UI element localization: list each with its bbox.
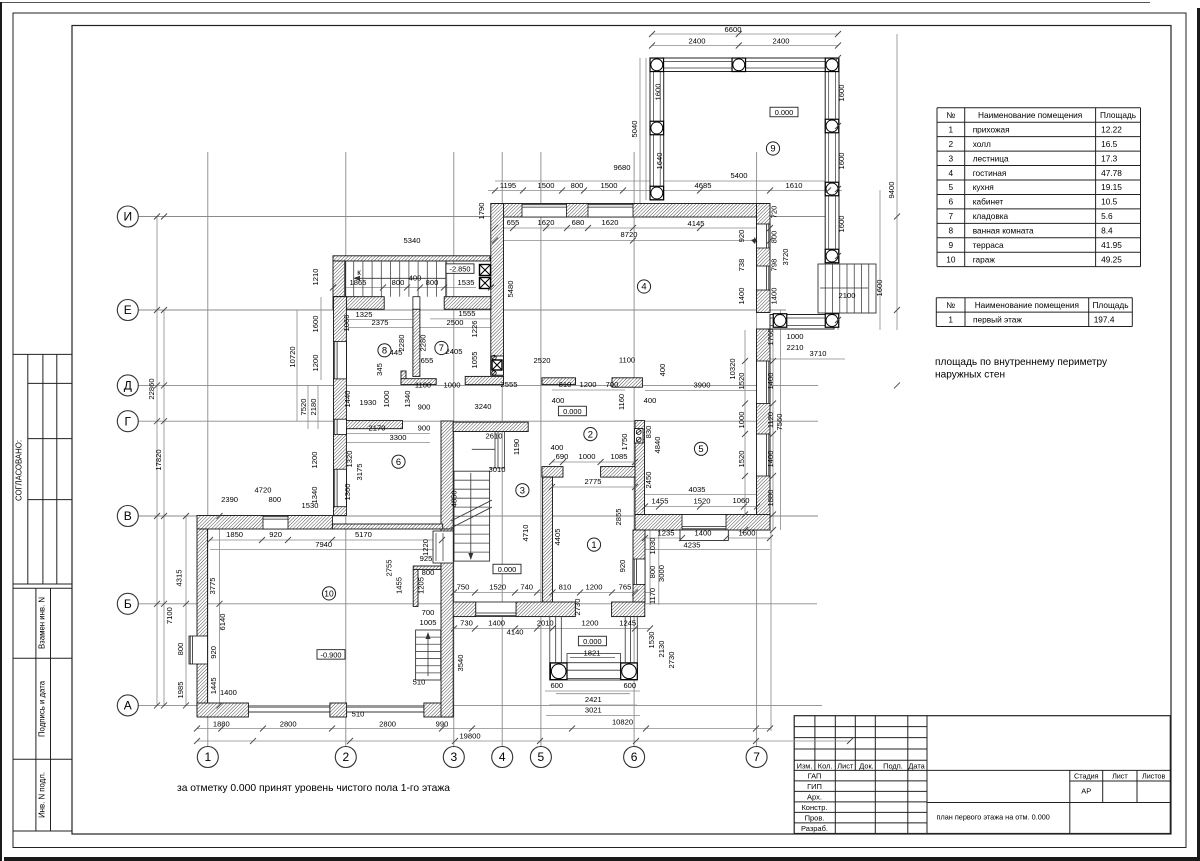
svg-text:6: 6 bbox=[631, 750, 638, 764]
svg-text:Б: Б bbox=[124, 597, 132, 611]
svg-text:400: 400 bbox=[644, 396, 657, 405]
svg-text:1200: 1200 bbox=[580, 380, 597, 389]
svg-text:900: 900 bbox=[418, 403, 431, 412]
svg-text:площадь по внутреннему перимет: площадь по внутреннему периметру bbox=[935, 357, 1108, 368]
svg-text:680: 680 bbox=[572, 218, 585, 227]
svg-text:1400: 1400 bbox=[488, 619, 505, 628]
svg-text:Е: Е bbox=[124, 303, 132, 317]
svg-text:4685: 4685 bbox=[695, 181, 712, 190]
svg-text:1235: 1235 bbox=[658, 529, 675, 538]
svg-text:1160: 1160 bbox=[617, 394, 626, 410]
svg-text:1555: 1555 bbox=[459, 309, 476, 318]
svg-text:1325: 1325 bbox=[356, 310, 373, 319]
svg-text:7: 7 bbox=[439, 342, 444, 353]
svg-text:1360: 1360 bbox=[343, 484, 352, 501]
svg-text:Разраб.: Разраб. bbox=[801, 824, 828, 833]
svg-text:4: 4 bbox=[949, 168, 954, 178]
svg-text:прихожая: прихожая bbox=[973, 124, 1010, 134]
svg-text:4720: 4720 bbox=[255, 486, 272, 495]
svg-text:Площадь: Площадь bbox=[1092, 300, 1128, 310]
svg-text:830: 830 bbox=[644, 426, 653, 439]
svg-text:1821: 1821 bbox=[584, 649, 601, 658]
svg-text:1500: 1500 bbox=[601, 181, 618, 190]
svg-text:10: 10 bbox=[946, 254, 956, 264]
svg-text:2210: 2210 bbox=[787, 343, 804, 352]
svg-text:4035: 4035 bbox=[689, 485, 706, 494]
svg-text:1400: 1400 bbox=[766, 373, 775, 390]
svg-text:7: 7 bbox=[949, 211, 954, 221]
svg-text:1100: 1100 bbox=[619, 356, 635, 365]
svg-text:1000: 1000 bbox=[444, 381, 461, 390]
svg-text:7520: 7520 bbox=[299, 399, 308, 416]
svg-text:2421: 2421 bbox=[585, 695, 602, 704]
svg-text:47.78: 47.78 bbox=[1101, 168, 1122, 178]
svg-text:2755: 2755 bbox=[385, 560, 394, 577]
svg-text:2520: 2520 bbox=[534, 356, 551, 365]
svg-text:700: 700 bbox=[422, 608, 435, 617]
svg-text:6140: 6140 bbox=[218, 614, 227, 631]
svg-text:4405: 4405 bbox=[553, 529, 562, 546]
svg-text:800: 800 bbox=[268, 495, 281, 504]
svg-text:1200: 1200 bbox=[582, 619, 599, 628]
svg-text:3: 3 bbox=[949, 153, 954, 163]
svg-text:2855: 2855 bbox=[614, 509, 623, 526]
svg-text:1340: 1340 bbox=[310, 487, 319, 504]
svg-text:Изм.: Изм. bbox=[797, 761, 813, 770]
svg-text:810: 810 bbox=[559, 380, 572, 389]
svg-text:Лист: Лист bbox=[837, 761, 854, 770]
svg-text:4: 4 bbox=[499, 750, 506, 764]
svg-text:3021: 3021 bbox=[585, 706, 602, 715]
svg-text:1005: 1005 bbox=[420, 618, 437, 627]
svg-text:10.5: 10.5 bbox=[1101, 197, 1118, 207]
svg-text:1000: 1000 bbox=[382, 391, 391, 408]
svg-text:1190: 1190 bbox=[512, 439, 521, 455]
svg-text:2: 2 bbox=[588, 428, 593, 439]
svg-text:1620: 1620 bbox=[538, 218, 555, 227]
svg-text:Лист: Лист bbox=[1112, 771, 1128, 780]
svg-text:600: 600 bbox=[623, 681, 636, 690]
svg-text:2610: 2610 bbox=[486, 432, 503, 441]
svg-text:5400: 5400 bbox=[731, 171, 748, 180]
svg-text:1000: 1000 bbox=[787, 332, 804, 341]
svg-text:1600: 1600 bbox=[311, 316, 320, 333]
svg-text:терраса: терраса bbox=[973, 240, 1004, 250]
svg-text:4315: 4315 bbox=[175, 570, 184, 587]
svg-text:Д: Д bbox=[124, 379, 132, 393]
svg-text:1195: 1195 bbox=[500, 181, 516, 190]
svg-text:1000: 1000 bbox=[579, 452, 596, 461]
svg-text:1760: 1760 bbox=[766, 329, 775, 346]
svg-text:Наименование помещения: Наименование помещения bbox=[975, 300, 1079, 310]
svg-text:Инв. N подл.: Инв. N подл. bbox=[38, 772, 47, 818]
svg-text:510: 510 bbox=[352, 710, 365, 719]
svg-text:3300: 3300 bbox=[390, 433, 407, 442]
svg-text:кладовка: кладовка bbox=[973, 211, 1009, 221]
svg-text:0.000: 0.000 bbox=[563, 407, 582, 416]
svg-text:920: 920 bbox=[618, 560, 627, 573]
svg-text:655: 655 bbox=[421, 356, 434, 365]
svg-text:1170: 1170 bbox=[648, 588, 657, 604]
svg-text:1200: 1200 bbox=[310, 452, 319, 469]
svg-text:8: 8 bbox=[949, 226, 954, 236]
svg-text:1400: 1400 bbox=[220, 688, 237, 697]
svg-text:Подп.: Подп. bbox=[883, 761, 903, 770]
svg-text:1520: 1520 bbox=[489, 583, 506, 592]
svg-text:1445: 1445 bbox=[209, 677, 218, 694]
svg-text:2730: 2730 bbox=[573, 599, 582, 616]
svg-text:3: 3 bbox=[450, 750, 457, 764]
svg-text:холл: холл bbox=[973, 139, 991, 149]
svg-text:Подпись и дата: Подпись и дата bbox=[38, 680, 47, 737]
svg-text:720: 720 bbox=[770, 206, 779, 219]
svg-text:1055: 1055 bbox=[470, 352, 479, 369]
svg-text:1: 1 bbox=[949, 124, 954, 134]
svg-text:1500: 1500 bbox=[538, 181, 555, 190]
svg-text:3010: 3010 bbox=[489, 465, 506, 474]
svg-text:1400: 1400 bbox=[737, 288, 746, 305]
svg-text:10320: 10320 bbox=[728, 358, 737, 379]
svg-text:2500: 2500 bbox=[447, 318, 464, 327]
svg-text:1600: 1600 bbox=[739, 529, 756, 538]
svg-text:740: 740 bbox=[520, 583, 533, 592]
svg-text:1600: 1600 bbox=[654, 84, 663, 101]
svg-text:1120: 1120 bbox=[766, 412, 775, 428]
svg-text:3775: 3775 bbox=[208, 578, 217, 595]
svg-text:Пров.: Пров. bbox=[805, 813, 825, 822]
svg-text:3540: 3540 bbox=[456, 655, 465, 672]
svg-text:№: № bbox=[946, 300, 955, 310]
svg-text:4850: 4850 bbox=[450, 490, 459, 507]
svg-text:2375: 2375 bbox=[372, 318, 389, 327]
svg-text:1520: 1520 bbox=[737, 451, 746, 468]
svg-text:1865: 1865 bbox=[350, 278, 367, 287]
svg-text:7560: 7560 bbox=[775, 414, 784, 431]
svg-text:5: 5 bbox=[949, 182, 954, 192]
svg-text:гараж: гараж bbox=[973, 254, 996, 264]
svg-text:лестница: лестница bbox=[973, 153, 1009, 163]
svg-text:400: 400 bbox=[658, 364, 667, 377]
svg-text:2280: 2280 bbox=[397, 335, 406, 352]
svg-text:800: 800 bbox=[770, 231, 779, 244]
svg-text:кабинет: кабинет bbox=[973, 197, 1004, 207]
svg-text:Арх.: Арх. bbox=[807, 792, 822, 801]
svg-text:5: 5 bbox=[698, 443, 703, 454]
svg-text:2800: 2800 bbox=[379, 720, 396, 729]
svg-text:690: 690 bbox=[556, 452, 569, 461]
svg-text:900: 900 bbox=[418, 424, 431, 433]
svg-text:2555: 2555 bbox=[501, 380, 518, 389]
svg-text:3710: 3710 bbox=[810, 349, 827, 358]
svg-text:810: 810 bbox=[559, 583, 572, 592]
svg-text:400: 400 bbox=[551, 443, 564, 452]
svg-text:5480: 5480 bbox=[506, 281, 515, 298]
svg-text:ГАП: ГАП bbox=[808, 771, 822, 780]
svg-text:1400: 1400 bbox=[766, 451, 775, 468]
svg-text:2450: 2450 bbox=[644, 472, 653, 489]
svg-text:1200: 1200 bbox=[586, 583, 603, 592]
svg-text:41.95: 41.95 bbox=[1101, 240, 1122, 250]
svg-text:Кол.: Кол. bbox=[818, 761, 833, 770]
svg-text:Г: Г bbox=[125, 414, 132, 428]
svg-text:1220: 1220 bbox=[421, 539, 430, 556]
svg-text:2400: 2400 bbox=[689, 37, 706, 46]
svg-text:4235: 4235 bbox=[684, 541, 701, 550]
svg-text:ванная комната: ванная комната bbox=[973, 226, 1034, 236]
svg-text:1880: 1880 bbox=[766, 490, 775, 507]
svg-text:700: 700 bbox=[606, 380, 619, 389]
svg-text:9680: 9680 bbox=[614, 163, 631, 172]
svg-text:1226: 1226 bbox=[470, 321, 479, 338]
svg-text:Констр.: Констр. bbox=[801, 803, 827, 812]
svg-text:2390: 2390 bbox=[221, 495, 238, 504]
svg-text:12.22: 12.22 bbox=[1101, 124, 1122, 134]
svg-text:1200: 1200 bbox=[311, 355, 320, 372]
svg-text:2730: 2730 bbox=[667, 652, 676, 669]
svg-text:1620: 1620 bbox=[602, 218, 619, 227]
svg-text:10720: 10720 bbox=[288, 346, 297, 367]
svg-text:6600: 6600 bbox=[725, 25, 742, 34]
svg-text:ГИП: ГИП bbox=[807, 782, 822, 791]
svg-text:В: В bbox=[124, 509, 132, 523]
svg-text:кухня: кухня bbox=[973, 182, 994, 192]
svg-text:5.6: 5.6 bbox=[1101, 211, 1113, 221]
svg-text:5: 5 bbox=[538, 750, 545, 764]
svg-text:920: 920 bbox=[737, 230, 746, 243]
svg-text:9: 9 bbox=[770, 143, 775, 154]
svg-text:730: 730 bbox=[460, 619, 473, 628]
svg-text:1340: 1340 bbox=[403, 391, 412, 408]
svg-text:1085: 1085 bbox=[611, 452, 628, 461]
svg-text:№: № bbox=[946, 110, 955, 120]
svg-text:400: 400 bbox=[552, 396, 565, 405]
svg-text:345: 345 bbox=[375, 363, 384, 376]
svg-text:1600: 1600 bbox=[837, 85, 846, 102]
svg-text:1530: 1530 bbox=[647, 632, 656, 649]
svg-text:1640: 1640 bbox=[655, 153, 664, 170]
svg-text:2775: 2775 bbox=[585, 477, 602, 486]
svg-text:-0.900: -0.900 bbox=[321, 650, 342, 659]
svg-text:1: 1 bbox=[204, 750, 211, 764]
svg-text:8720: 8720 bbox=[621, 230, 638, 239]
svg-text:1100: 1100 bbox=[415, 381, 431, 390]
svg-text:1: 1 bbox=[948, 314, 953, 324]
svg-text:гостиная: гостиная bbox=[973, 168, 1007, 178]
svg-text:197.4: 197.4 bbox=[1094, 314, 1115, 324]
svg-text:план первого этажа на отм. 0.0: план первого этажа на отм. 0.000 bbox=[937, 813, 1050, 822]
svg-text:920: 920 bbox=[209, 646, 218, 659]
svg-text:3: 3 bbox=[520, 484, 525, 495]
svg-text:за отметку 0.000 принят уровен: за отметку 0.000 принят уровень чистого … bbox=[177, 783, 450, 794]
svg-text:16.5: 16.5 bbox=[1101, 139, 1118, 149]
svg-text:17820: 17820 bbox=[154, 449, 163, 470]
svg-text:1: 1 bbox=[591, 539, 596, 550]
svg-text:2400: 2400 bbox=[773, 37, 790, 46]
svg-text:2170: 2170 bbox=[369, 424, 386, 433]
svg-text:4840: 4840 bbox=[653, 437, 662, 454]
svg-text:2: 2 bbox=[342, 750, 349, 764]
svg-text:10: 10 bbox=[324, 589, 334, 599]
svg-text:И: И bbox=[123, 210, 132, 224]
svg-text:750: 750 bbox=[457, 583, 470, 592]
svg-text:0.000: 0.000 bbox=[583, 637, 602, 646]
svg-text:800: 800 bbox=[392, 278, 405, 287]
svg-text:5170: 5170 bbox=[355, 530, 372, 539]
svg-text:1600: 1600 bbox=[837, 153, 846, 170]
svg-text:1000: 1000 bbox=[737, 412, 746, 429]
svg-text:1750: 1750 bbox=[620, 434, 629, 451]
svg-text:7940: 7940 bbox=[315, 540, 332, 549]
svg-text:765: 765 bbox=[619, 583, 632, 592]
svg-text:Площадь: Площадь bbox=[1100, 110, 1136, 120]
svg-text:49.25: 49.25 bbox=[1101, 254, 1122, 264]
svg-text:1400: 1400 bbox=[770, 288, 779, 305]
svg-text:17.3: 17.3 bbox=[1101, 153, 1118, 163]
svg-text:9400: 9400 bbox=[887, 182, 896, 199]
svg-text:738: 738 bbox=[737, 259, 746, 272]
svg-text:1440: 1440 bbox=[343, 391, 352, 408]
svg-text:-2.850: -2.850 bbox=[450, 265, 471, 274]
svg-text:800: 800 bbox=[648, 566, 657, 579]
svg-text:Док.: Док. bbox=[859, 761, 874, 770]
svg-text:5040: 5040 bbox=[630, 121, 639, 138]
svg-text:1455: 1455 bbox=[652, 497, 669, 506]
svg-text:8: 8 bbox=[382, 345, 387, 356]
svg-text:600: 600 bbox=[550, 681, 563, 690]
svg-text:АР: АР bbox=[1081, 787, 1091, 796]
svg-text:1520: 1520 bbox=[737, 373, 746, 390]
svg-text:к: к bbox=[357, 268, 361, 277]
svg-text:наружных стен: наружных стен bbox=[935, 370, 1005, 381]
svg-text:800: 800 bbox=[176, 643, 185, 656]
svg-text:510: 510 bbox=[413, 678, 426, 687]
svg-text:798: 798 bbox=[770, 259, 779, 272]
svg-text:400: 400 bbox=[409, 274, 422, 283]
svg-text:СОГЛАСОВАНО:: СОГЛАСОВАНО: bbox=[15, 440, 24, 501]
svg-text:Наименование помещения: Наименование помещения bbox=[978, 110, 1082, 120]
svg-text:А: А bbox=[124, 699, 132, 713]
svg-text:6: 6 bbox=[949, 197, 954, 207]
svg-text:7: 7 bbox=[753, 750, 760, 764]
svg-text:3175: 3175 bbox=[355, 464, 364, 481]
svg-text:920: 920 bbox=[269, 530, 282, 539]
svg-text:22860: 22860 bbox=[147, 378, 156, 399]
svg-text:8.4: 8.4 bbox=[1101, 226, 1113, 236]
svg-text:19800: 19800 bbox=[459, 732, 480, 741]
svg-text:1060: 1060 bbox=[342, 315, 351, 332]
svg-text:2: 2 bbox=[949, 139, 954, 149]
svg-text:3000: 3000 bbox=[657, 565, 666, 582]
svg-text:0.000: 0.000 bbox=[498, 565, 517, 574]
svg-text:1610: 1610 bbox=[786, 181, 803, 190]
svg-text:3720: 3720 bbox=[781, 249, 790, 266]
svg-text:800: 800 bbox=[571, 181, 584, 190]
svg-text:2130: 2130 bbox=[657, 641, 666, 658]
svg-text:990: 990 bbox=[436, 720, 449, 729]
svg-text:4: 4 bbox=[641, 281, 646, 292]
svg-text:7100: 7100 bbox=[165, 607, 174, 624]
svg-text:2280: 2280 bbox=[419, 335, 428, 352]
svg-text:Взамен инв. N: Взамен инв. N bbox=[38, 597, 47, 649]
svg-text:1320: 1320 bbox=[345, 451, 354, 468]
svg-text:1205: 1205 bbox=[417, 577, 426, 594]
svg-text:2100: 2100 bbox=[839, 291, 856, 300]
svg-text:Стадия: Стадия bbox=[1074, 771, 1099, 780]
svg-text:1535: 1535 bbox=[458, 278, 475, 287]
svg-text:19.15: 19.15 bbox=[1101, 182, 1122, 192]
svg-text:1400: 1400 bbox=[695, 529, 712, 538]
svg-text:1880: 1880 bbox=[213, 720, 230, 729]
svg-text:1210: 1210 bbox=[311, 269, 320, 286]
svg-text:3240: 3240 bbox=[475, 402, 492, 411]
svg-text:4710: 4710 bbox=[521, 525, 530, 542]
svg-text:655: 655 bbox=[507, 218, 520, 227]
svg-text:1600: 1600 bbox=[837, 216, 846, 233]
svg-text:0.000: 0.000 bbox=[775, 108, 794, 117]
svg-text:9: 9 bbox=[949, 240, 954, 250]
svg-text:1985: 1985 bbox=[176, 682, 185, 699]
svg-text:5340: 5340 bbox=[404, 236, 421, 245]
svg-text:1245: 1245 bbox=[619, 619, 636, 628]
svg-text:2800: 2800 bbox=[280, 720, 297, 729]
svg-text:первый этаж: первый этаж bbox=[973, 314, 1022, 324]
svg-text:Дата: Дата bbox=[908, 761, 925, 770]
svg-text:Листов: Листов bbox=[1142, 771, 1166, 780]
svg-text:1455: 1455 bbox=[394, 577, 403, 594]
svg-text:800: 800 bbox=[422, 568, 435, 577]
svg-text:10820: 10820 bbox=[612, 718, 633, 727]
svg-text:800: 800 bbox=[426, 278, 439, 287]
svg-text:3900: 3900 bbox=[694, 381, 711, 390]
svg-text:1030: 1030 bbox=[648, 538, 657, 555]
svg-text:2180: 2180 bbox=[309, 399, 318, 416]
svg-text:6: 6 bbox=[396, 456, 401, 467]
svg-text:1850: 1850 bbox=[226, 530, 243, 539]
svg-text:1600: 1600 bbox=[875, 280, 884, 297]
svg-text:1930: 1930 bbox=[360, 398, 377, 407]
svg-text:1790: 1790 bbox=[477, 203, 486, 220]
